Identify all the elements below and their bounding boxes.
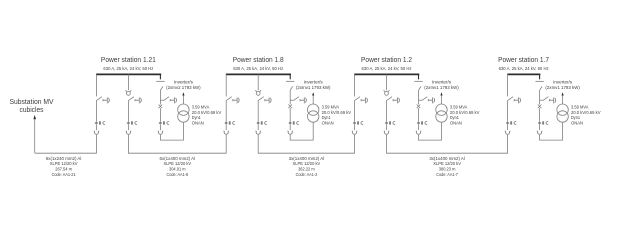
- cable wire run Code: AA1-2: [258, 135, 354, 153]
- svg-text:Code: AA1-8: Code: AA1-8: [167, 172, 189, 178]
- svg-text:ONAN: ONAN: [571, 120, 583, 126]
- svg-text:362.22 m: 362.22 m: [298, 167, 315, 173]
- transformer Power station 1.21: [178, 104, 189, 122]
- load-break switch transformer feeder Power station 1.7: [540, 97, 556, 104]
- wire feeder1 drop Power station 1.7: [507, 74, 509, 96]
- arrow to inverter Power station 1.8: [312, 92, 314, 95]
- wire above termination Power station 1.21: [159, 125, 161, 130]
- svg-text:3.59 MVA: 3.59 MVA: [450, 105, 468, 111]
- wire feeder2 drop Power station 1.2: [386, 74, 388, 90]
- wire transformer feeder Power station 1.21: [159, 90, 161, 104]
- transformer Power station 1.2: [436, 104, 447, 122]
- separable connector transformer feeder Power station 1.8: [289, 121, 299, 124]
- fuse transformer feeder Power station 1.8: [288, 105, 292, 109]
- arrow to inverter Power station 1.2: [440, 92, 442, 95]
- svg-text:XLPE 12/20 kV: XLPE 12/20 kV: [163, 161, 191, 167]
- wire feeder2 drop Power station 1.21: [127, 74, 129, 90]
- wire substation drop: [34, 119, 36, 153]
- cable test point feeder2 Power station 1.8: [255, 90, 261, 95]
- cable termination transformer feeder Power station 1.7: [537, 131, 542, 134]
- wire transformer feeder lower Power station 1.21: [159, 108, 161, 121]
- svg-text:(2xInv2 1793 kW): (2xInv2 1793 kW): [166, 85, 201, 91]
- wire transformer to inverter Power station 1.2: [441, 96, 443, 105]
- wire feeder2 lower Power station 1.2: [386, 125, 388, 130]
- fuse transformer feeder Power station 1.21: [159, 105, 163, 109]
- wire transformer to inverter Power station 1.21: [182, 96, 184, 105]
- separable connector feeder1 Power station 1.7: [506, 121, 516, 124]
- svg-text:Inverter/s: Inverter/s: [174, 80, 194, 86]
- cable wire run Code: AA1-8: [128, 135, 226, 153]
- svg-text:3.59 MVA: 3.59 MVA: [192, 105, 210, 111]
- cable termination feeder2 Power station 1.8: [256, 131, 261, 134]
- cable substation to PS1.21: [35, 135, 97, 153]
- svg-text:Inverter/s: Inverter/s: [304, 80, 324, 86]
- load-break switch transformer feeder Power station 1.21: [160, 97, 176, 104]
- load-break switch feeder1 Power station 1.21: [96, 97, 109, 104]
- load-break switch feeder1 Power station 1.2: [355, 97, 368, 104]
- svg-text:3.59 MVA: 3.59 MVA: [571, 105, 589, 111]
- wire feeder1 lower Power station 1.7: [507, 125, 509, 130]
- svg-text:630 A, 25 kA, 24 kV, 50 Hz: 630 A, 25 kA, 24 kV, 50 Hz: [499, 66, 550, 72]
- wire busbar end drop Power station 1.21: [159, 74, 161, 79]
- disconnector fixed contact Power station 1.21: [156, 80, 164, 82]
- wire transformer feeder lower Power station 1.8: [289, 108, 291, 121]
- busbar Power station 1.8: [226, 73, 291, 75]
- svg-text:XLPE 12/20 kV: XLPE 12/20 kV: [50, 161, 78, 167]
- svg-text:Code: AA1-21: Code: AA1-21: [52, 172, 76, 178]
- busbar Power station 1.2: [354, 73, 419, 75]
- svg-text:ONAN: ONAN: [192, 120, 204, 126]
- wire feeder1 mid Power station 1.8: [225, 101, 227, 122]
- svg-text:Dyn1: Dyn1: [450, 115, 459, 121]
- wire transformer to inverter Power station 1.8: [312, 96, 314, 105]
- wire transformer feeder Power station 1.2: [418, 90, 420, 104]
- svg-text:Substation MV: Substation MV: [10, 99, 54, 106]
- svg-text:3x(1x400 mm2) Al: 3x(1x400 mm2) Al: [289, 156, 325, 162]
- separable connector transformer feeder Power station 1.7: [538, 121, 548, 124]
- wire transformer feeder lower Power station 1.7: [539, 108, 541, 121]
- svg-text:XLPE 12/20 kV: XLPE 12/20 kV: [293, 161, 321, 167]
- cable test point feeder2 Power station 1.21: [126, 90, 132, 95]
- wire feeder1 mid Power station 1.7: [507, 101, 509, 122]
- separable connector feeder2 Power station 1.2: [385, 121, 395, 124]
- busbar Power station 1.21: [96, 73, 161, 75]
- svg-text:ONAN: ONAN: [322, 120, 334, 126]
- separable connector feeder2 Power station 1.21: [127, 121, 137, 124]
- disconnector blade Power station 1.8: [290, 87, 292, 91]
- fuse transformer feeder Power station 1.7: [538, 105, 542, 109]
- transformer Power station 1.8: [308, 104, 319, 122]
- svg-text:20.0 kV/0.69 kV: 20.0 kV/0.69 kV: [450, 110, 480, 116]
- disconnector blade Power station 1.2: [419, 87, 421, 91]
- load-break switch feeder2 Power station 1.2: [387, 97, 400, 104]
- svg-text:Code: AA1-7: Code: AA1-7: [436, 172, 458, 178]
- load-break switch transformer feeder Power station 1.2: [419, 97, 435, 104]
- svg-text:267.54 m: 267.54 m: [55, 167, 72, 173]
- cable termination feeder1 Power station 1.21: [94, 131, 99, 135]
- wire link to transformer Power station 1.21: [160, 122, 183, 140]
- arrow to inverter Power station 1.7: [562, 92, 564, 95]
- transformer Power station 1.7: [557, 104, 568, 122]
- svg-text:cubicles: cubicles: [20, 107, 44, 114]
- separable connector transformer feeder Power station 1.21: [159, 121, 169, 124]
- wire transformer feeder Power station 1.7: [539, 90, 541, 104]
- svg-text:3x(1x400 mm2) Al: 3x(1x400 mm2) Al: [429, 156, 465, 162]
- wire link to transformer Power station 1.8: [290, 122, 313, 140]
- cable termination transformer feeder Power station 1.21: [158, 131, 163, 135]
- wire feeder2 mid Power station 1.21: [127, 101, 129, 122]
- wire above termination Power station 1.2: [418, 125, 420, 130]
- arrow to inverter Power station 1.21: [182, 92, 184, 95]
- wire feeder2 drop Power station 1.8: [257, 74, 259, 90]
- separable connector transformer feeder Power station 1.2: [417, 121, 427, 124]
- wire link to transformer Power station 1.2: [419, 122, 442, 140]
- svg-text:Power station 1.7: Power station 1.7: [498, 55, 549, 64]
- svg-text:20.0 kV/0.69 kV: 20.0 kV/0.69 kV: [322, 110, 352, 116]
- wire feeder1 drop Power station 1.21: [95, 74, 97, 96]
- svg-text:304.91 m: 304.91 m: [169, 167, 186, 173]
- cable termination feeder1 Power station 1.2: [352, 131, 357, 134]
- svg-text:6x(1x400 mm2) Al: 6x(1x400 mm2) Al: [160, 156, 196, 162]
- svg-text:Dyn1: Dyn1: [322, 115, 331, 121]
- separable connector feeder1 Power station 1.21: [95, 121, 105, 124]
- wire above termination Power station 1.8: [289, 125, 291, 130]
- wire feeder1 lower Power station 1.2: [354, 125, 356, 130]
- svg-text:(2xInv1 1793 kW): (2xInv1 1793 kW): [424, 85, 459, 91]
- svg-text:Dyn1: Dyn1: [192, 115, 201, 121]
- wire feeder1 mid Power station 1.21: [95, 101, 97, 122]
- busbar Power station 1.7: [507, 73, 540, 75]
- cable termination feeder2 Power station 1.21: [126, 131, 131, 135]
- cable test point feeder2 Power station 1.2: [384, 90, 390, 95]
- svg-text:Code: AA1-2: Code: AA1-2: [296, 172, 318, 178]
- wire feeder1 mid Power station 1.2: [354, 101, 356, 122]
- svg-text:630 A, 25 kA, 24 kV, 50 Hz: 630 A, 25 kA, 24 kV, 50 Hz: [103, 66, 154, 72]
- svg-text:630 A, 25 kA, 24 kV, 50 Hz: 630 A, 25 kA, 24 kV, 50 Hz: [233, 66, 284, 72]
- svg-text:Power station 1.8: Power station 1.8: [233, 55, 284, 64]
- cable termination feeder2 Power station 1.2: [384, 131, 389, 134]
- svg-text:XLPE 12/20 kV: XLPE 12/20 kV: [433, 161, 461, 167]
- load-break switch feeder2 Power station 1.8: [258, 97, 271, 104]
- separable connector feeder2 Power station 1.8: [257, 121, 267, 124]
- wire feeder1 drop Power station 1.2: [354, 74, 356, 96]
- wire feeder2 mid Power station 1.8: [257, 101, 259, 122]
- load-break switch feeder1 Power station 1.7: [508, 97, 521, 104]
- svg-text:3.59 MVA: 3.59 MVA: [322, 105, 340, 111]
- wire feeder1 drop Power station 1.8: [225, 74, 227, 96]
- wire transformer feeder lower Power station 1.2: [418, 108, 420, 121]
- wire transformer feeder Power station 1.8: [289, 90, 291, 104]
- svg-text:20.0 kV/0.69 kV: 20.0 kV/0.69 kV: [192, 110, 222, 116]
- disconnector fixed contact Power station 1.8: [286, 80, 294, 82]
- svg-text:Power station 1.2: Power station 1.2: [361, 55, 412, 64]
- load-break switch feeder1 Power station 1.8: [226, 97, 239, 104]
- svg-text:Inverter/s: Inverter/s: [553, 80, 573, 86]
- svg-text:Dyn1: Dyn1: [571, 115, 580, 121]
- separable connector feeder1 Power station 1.8: [225, 121, 235, 124]
- svg-text:6x(1x240 mm2) Al: 6x(1x240 mm2) Al: [46, 156, 82, 162]
- wire busbar end drop Power station 1.8: [289, 74, 291, 79]
- cable termination feeder1 Power station 1.7: [505, 131, 510, 135]
- cable termination transformer feeder Power station 1.2: [416, 131, 421, 134]
- cable termination feeder1 Power station 1.8: [224, 131, 229, 134]
- wire feeder1 lower Power station 1.21: [95, 125, 97, 130]
- svg-text:Power station 1.21: Power station 1.21: [101, 55, 156, 64]
- wire feeder2 lower Power station 1.21: [127, 125, 129, 130]
- svg-text:(2xInv1 1793 kW): (2xInv1 1793 kW): [545, 85, 580, 91]
- wire link to transformer Power station 1.7: [540, 122, 563, 140]
- svg-text:20.0 kV/0.69 kV: 20.0 kV/0.69 kV: [571, 110, 601, 116]
- load-break switch feeder2 Power station 1.21: [128, 97, 141, 104]
- wire busbar end drop Power station 1.7: [539, 74, 541, 79]
- wire above termination Power station 1.7: [539, 125, 541, 130]
- fuse transformer feeder Power station 1.2: [417, 105, 421, 109]
- disconnector blade Power station 1.21: [160, 87, 162, 91]
- arrow to substation: [33, 115, 36, 119]
- wire transformer to inverter Power station 1.7: [562, 96, 564, 105]
- wire feeder1 lower Power station 1.8: [225, 125, 227, 130]
- wire feeder2 mid Power station 1.2: [386, 101, 388, 122]
- svg-text:630 A, 25 kA, 24 kV, 50 Hz: 630 A, 25 kA, 24 kV, 50 Hz: [362, 66, 413, 72]
- disconnector fixed contact Power station 1.7: [535, 80, 543, 82]
- svg-text:380.23 m: 380.23 m: [439, 167, 456, 173]
- load-break switch transformer feeder Power station 1.8: [290, 97, 306, 104]
- disconnector blade Power station 1.7: [540, 87, 542, 91]
- svg-text:ONAN: ONAN: [450, 120, 462, 126]
- disconnector fixed contact Power station 1.2: [414, 80, 422, 82]
- wire busbar end drop Power station 1.2: [418, 74, 420, 79]
- svg-text:(2xInv1 1793 kW): (2xInv1 1793 kW): [296, 85, 331, 91]
- cable termination transformer feeder Power station 1.8: [288, 131, 293, 135]
- svg-text:Inverter/s: Inverter/s: [432, 80, 452, 86]
- cable wire run Code: AA1-7: [387, 135, 508, 153]
- wire feeder2 lower Power station 1.8: [257, 125, 259, 130]
- separable connector feeder1 Power station 1.2: [353, 121, 363, 124]
